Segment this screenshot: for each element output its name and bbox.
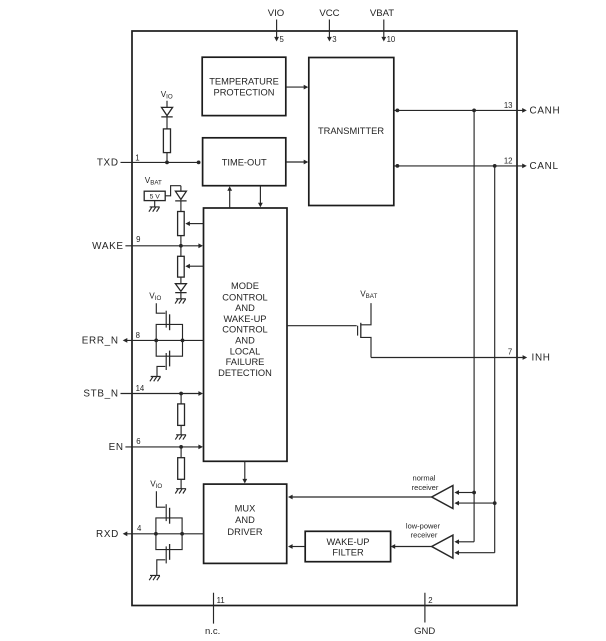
svg-text:EN: EN [109, 442, 124, 453]
svg-text:9: 9 [136, 235, 140, 244]
svg-text:TEMPERATURE: TEMPERATURE [209, 77, 279, 87]
svg-text:FILTER: FILTER [332, 548, 364, 558]
svg-text:MUX: MUX [235, 503, 256, 513]
svg-text:VIO: VIO [149, 291, 161, 301]
svg-text:AND: AND [235, 303, 255, 313]
svg-text:PROTECTION: PROTECTION [214, 88, 275, 98]
svg-text:AND: AND [235, 515, 255, 525]
svg-text:CANH: CANH [530, 106, 561, 117]
svg-text:n.c.: n.c. [205, 626, 220, 637]
svg-text:VBAT: VBAT [370, 8, 394, 19]
svg-text:DRIVER: DRIVER [227, 527, 262, 537]
svg-text:WAKE-UP: WAKE-UP [223, 314, 266, 324]
svg-text:FAILURE: FAILURE [226, 357, 265, 367]
svg-text:VCC: VCC [319, 8, 339, 19]
svg-text:8: 8 [136, 331, 140, 340]
svg-text:receiver: receiver [412, 483, 439, 492]
svg-text:12: 12 [504, 156, 513, 165]
svg-text:5 V: 5 V [150, 194, 161, 201]
svg-text:VIO: VIO [268, 8, 285, 19]
svg-text:TXD: TXD [97, 158, 119, 169]
svg-text:WAKE-UP: WAKE-UP [326, 537, 369, 547]
svg-text:INH: INH [532, 353, 551, 364]
svg-text:TIME-OUT: TIME-OUT [222, 157, 267, 167]
svg-text:10: 10 [387, 35, 396, 44]
svg-text:MODE: MODE [231, 281, 259, 291]
svg-text:11: 11 [217, 596, 225, 605]
svg-text:WAKE: WAKE [92, 241, 124, 252]
svg-text:DETECTION: DETECTION [218, 368, 272, 378]
svg-text:2: 2 [428, 596, 432, 605]
svg-text:VIO: VIO [161, 90, 173, 100]
svg-text:RXD: RXD [96, 529, 119, 540]
svg-text:13: 13 [504, 101, 513, 110]
svg-text:5: 5 [280, 35, 285, 44]
svg-text:receiver: receiver [411, 531, 438, 540]
svg-text:CONTROL: CONTROL [222, 325, 267, 335]
svg-text:CANL: CANL [530, 161, 559, 172]
svg-text:STB_N: STB_N [83, 389, 118, 400]
svg-text:VBAT: VBAT [360, 290, 377, 300]
svg-text:VBAT: VBAT [145, 176, 162, 186]
svg-text:ERR_N: ERR_N [82, 336, 119, 347]
svg-text:TRANSMITTER: TRANSMITTER [318, 126, 384, 136]
svg-text:AND: AND [235, 335, 255, 345]
svg-text:1: 1 [135, 153, 139, 162]
svg-text:VIO: VIO [150, 480, 162, 490]
svg-text:6: 6 [136, 437, 140, 446]
svg-text:GND: GND [414, 626, 435, 637]
svg-text:low-power: low-power [406, 521, 441, 530]
svg-text:7: 7 [508, 348, 512, 357]
svg-text:LOCAL: LOCAL [230, 347, 261, 357]
svg-text:4: 4 [137, 524, 142, 533]
svg-text:normal: normal [413, 474, 436, 483]
svg-text:3: 3 [332, 35, 336, 44]
svg-text:14: 14 [136, 384, 145, 393]
svg-text:CONTROL: CONTROL [222, 293, 267, 303]
